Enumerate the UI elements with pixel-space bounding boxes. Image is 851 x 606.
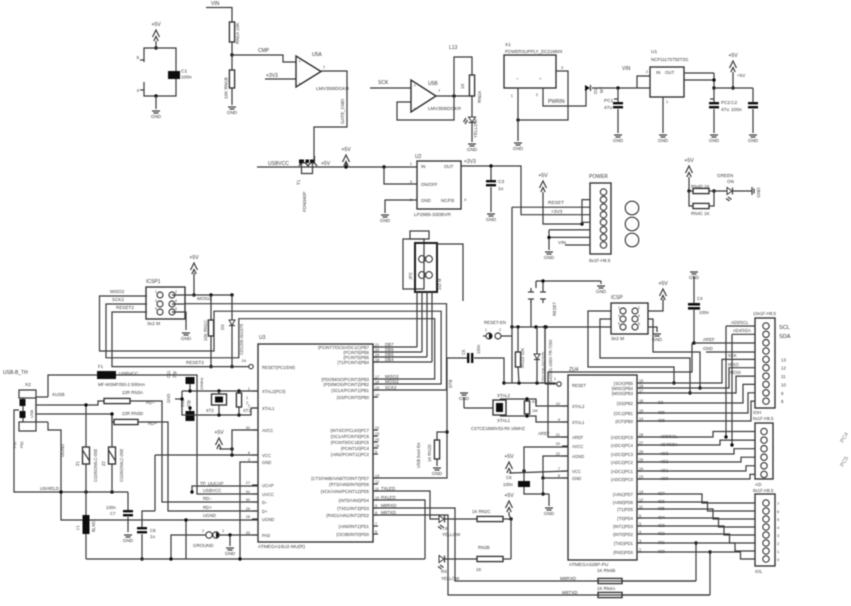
wire RESET line to ICSP xyxy=(512,326,611,328)
svg-text:XTAL2: XTAL2 xyxy=(497,393,511,398)
wire crystal gnd xyxy=(175,391,182,408)
junction d2 bottom xyxy=(535,381,538,384)
svg-text:SCL: SCL xyxy=(779,325,790,331)
svg-text:MISO: MISO xyxy=(728,362,739,367)
wire RD- net xyxy=(130,401,258,502)
svg-text:GND: GND xyxy=(123,538,134,543)
wire MOSI to IOH pin7 xyxy=(637,376,755,393)
svg-text:SDA: SDA xyxy=(779,334,791,340)
svg-text:(OC1)PB1: (OC1)PB1 xyxy=(614,411,634,416)
svg-text:GND: GND xyxy=(166,394,171,403)
wire M8RXD rail right xyxy=(622,580,696,582)
svg-text:22p: 22p xyxy=(186,399,191,407)
wire RN1A to junction xyxy=(231,42,233,55)
svg-text:GROUND: GROUND xyxy=(193,543,214,548)
svg-text:YELLOW: YELLOW xyxy=(473,118,478,138)
voltage regulator U1 NCP1117ST50T3G xyxy=(646,49,689,97)
label C9 22p xyxy=(166,370,177,378)
wire RX LED to RN2B xyxy=(445,558,478,560)
wire AREF to IOH pin3 xyxy=(694,342,755,344)
svg-text:(CTS/HWB/AIN6/TO/INT7)PD7: (CTS/HWB/AIN6/TO/INT7)PD7 xyxy=(311,476,370,481)
label RXLED xyxy=(381,495,396,500)
IC ZU4 ATMEGA328P-PU xyxy=(556,367,643,568)
label GREEN ON xyxy=(717,173,734,184)
wire +5V output rail xyxy=(714,87,753,89)
wire RESET row to ZU4 xyxy=(504,382,556,384)
LED TX yellow xyxy=(438,516,461,538)
svg-text:22: 22 xyxy=(375,426,379,430)
svg-text:(INT0)PD2: (INT0)PD2 xyxy=(613,532,634,537)
svg-text:19: 19 xyxy=(375,353,379,357)
svg-text:GND: GND xyxy=(227,110,238,115)
svg-text:UGND: UGND xyxy=(203,513,216,518)
svg-text:100n: 100n xyxy=(699,310,709,315)
label 1K RN2B xyxy=(476,567,481,572)
svg-text:1u: 1u xyxy=(498,186,504,192)
label XTAL1 net xyxy=(497,418,511,423)
svg-text:PC2: PC2 xyxy=(721,100,731,106)
svg-text:10K RN1B: 10K RN1B xyxy=(224,77,229,99)
wire PAD to jumper xyxy=(219,534,258,536)
svg-text:GND: GND xyxy=(513,146,524,151)
ground below RN2D xyxy=(432,468,443,476)
svg-text:M8TXD: M8TXD xyxy=(562,590,578,595)
junction m8rxd io1 xyxy=(694,541,697,544)
label IO8 at ZU4 xyxy=(658,418,665,423)
svg-text:VCC: VCC xyxy=(572,469,581,474)
capacitor C6 100n xyxy=(503,471,530,487)
svg-text:11: 11 xyxy=(781,374,786,379)
wire POWER pin7 gnd xyxy=(549,236,590,238)
label XTAL2 net xyxy=(497,393,511,398)
svg-text:(ADC1)PC1: (ADC1)PC1 xyxy=(611,469,634,474)
junction u3gnd rail xyxy=(238,557,241,560)
junction xt1 a xyxy=(188,406,191,409)
wire RESET to POWER pin3 xyxy=(512,206,590,208)
junction xt1 c xyxy=(237,413,240,416)
varistor Z2 CG0603MLC-05E xyxy=(101,412,124,492)
svg-text:AD4/SDA: AD4/SDA xyxy=(733,328,751,333)
svg-text:USBVCC: USBVCC xyxy=(268,161,289,167)
resonator Y2 CSTCE16M0V53 xyxy=(471,399,525,431)
svg-text:LMV358IDGKR: LMV358IDGKR xyxy=(428,106,462,112)
wire ICSP1 pin6 to GND xyxy=(172,312,186,330)
svg-text:5: 5 xyxy=(618,322,620,326)
label CD1206-S01575 at D3 xyxy=(239,323,244,355)
svg-text:27: 27 xyxy=(246,481,250,485)
svg-text:3: 3 xyxy=(155,299,157,303)
wire C6 gnd xyxy=(524,487,543,494)
label 1K RN2C xyxy=(472,509,491,514)
svg-text:4: 4 xyxy=(175,299,177,303)
capacitor C8 1u xyxy=(137,521,156,539)
label DTR xyxy=(448,379,453,388)
junction xtgnd a xyxy=(180,397,183,400)
label +3V3 at U2 output xyxy=(464,159,476,165)
svg-text:XT1: XT1 xyxy=(243,408,251,413)
wire ICSP pin3 loop SCK xyxy=(600,319,690,393)
label PWRIN xyxy=(548,99,565,105)
svg-text:10x1F-H8.5: 10x1F-H8.5 xyxy=(753,311,776,316)
capacitor C12 22p xyxy=(180,399,195,421)
svg-text:5: 5 xyxy=(375,450,377,454)
junction powergnd xyxy=(547,236,550,239)
wire POWER pin6 gnd xyxy=(549,229,590,231)
op-amp U5A xyxy=(296,52,350,92)
wire X1 pin1 to GND xyxy=(511,88,518,141)
svg-text:6: 6 xyxy=(375,530,377,534)
label RN2B xyxy=(478,545,490,550)
label M8TXD rail xyxy=(562,590,578,595)
svg-text:=: = xyxy=(539,76,542,81)
svg-text:GND: GND xyxy=(544,255,555,260)
svg-text:2: 2 xyxy=(246,401,248,405)
svg-text:IOL: IOL xyxy=(755,569,763,574)
svg-text:1K RN4B: 1K RN4B xyxy=(597,568,615,573)
label SS at ZU4 xyxy=(658,400,664,405)
svg-text:(AIN2/PCINT11)PC2: (AIN2/PCINT11)PC2 xyxy=(331,452,370,457)
node CMP junction xyxy=(230,53,233,56)
junction boot en xyxy=(445,430,448,433)
svg-text:3x2 M: 3x2 M xyxy=(611,336,624,342)
svg-text:+5V: +5V xyxy=(341,147,351,153)
svg-text:X2: X2 xyxy=(25,382,31,388)
wire C8 to bottom rail xyxy=(141,534,143,559)
labels IOH pin digits xyxy=(781,357,786,404)
svg-text:XT2: XT2 xyxy=(206,408,214,413)
svg-text:8x1F-H8.5: 8x1F-H8.5 xyxy=(589,258,611,263)
svg-text:VCC: VCC xyxy=(262,453,271,458)
svg-text:IN: IN xyxy=(656,70,660,75)
label SDA xyxy=(779,334,791,340)
connector AD 6x1F-H8.5 xyxy=(753,423,774,493)
resistor RN2D 1K xyxy=(427,432,447,466)
junction RN1C bottom xyxy=(209,365,212,368)
svg-text:1: 1 xyxy=(618,306,620,310)
svg-text:R2: R2 xyxy=(532,399,538,404)
label USB-B_TH xyxy=(3,370,28,376)
svg-text:+5V: +5V xyxy=(151,22,161,28)
ground below C1 xyxy=(151,111,162,119)
wire LED L to GND xyxy=(471,123,473,142)
wire DB4 to U3 xyxy=(373,361,432,363)
svg-text:2: 2 xyxy=(202,529,204,533)
label AD5/SCL at ZU4 xyxy=(660,434,678,439)
svg-text:NC/FB: NC/FB xyxy=(441,198,454,203)
power flag +5V at ICSP xyxy=(658,281,668,300)
svg-text:XTAL2(PC0): XTAL2(PC0) xyxy=(262,389,286,394)
svg-text:GATE_CMD: GATE_CMD xyxy=(340,98,345,124)
svg-text:XTAL1: XTAL1 xyxy=(497,418,511,423)
junction C8 rail xyxy=(140,557,143,560)
resistor RN4C 1K xyxy=(689,191,714,216)
wire +5V to ICSP1 pin2 xyxy=(193,273,195,295)
junction icsp miso xyxy=(672,381,675,384)
ground below ZU4 xyxy=(544,508,555,516)
resistor RN4A 1K xyxy=(597,586,622,598)
wire XTAL1 row xyxy=(182,408,258,415)
svg-text:+3V3: +3V3 xyxy=(266,73,278,79)
wire RN1B to GND xyxy=(231,88,233,105)
junction icsp mosi xyxy=(698,386,701,389)
junction +5V rail at U2 branch xyxy=(382,165,385,168)
junction RN1C top xyxy=(209,293,212,296)
svg-text:10: 10 xyxy=(781,382,786,387)
svg-text:D−: D− xyxy=(262,500,268,505)
svg-text:GND: GND xyxy=(658,138,669,143)
wire C8 top xyxy=(142,511,155,521)
svg-text:M8RXD: M8RXD xyxy=(560,576,577,581)
svg-text:18: 18 xyxy=(375,358,379,362)
svg-text:1u: 1u xyxy=(150,534,155,539)
op-amp U5B xyxy=(411,80,462,112)
svg-text:RESET(PC1/DW): RESET(PC1/DW) xyxy=(262,365,296,370)
power jack X1 xyxy=(504,42,563,88)
junction gnd climb xyxy=(541,492,544,495)
svg-text:6: 6 xyxy=(638,322,640,326)
wire ICSP1 5v net to RN1C/D3 xyxy=(194,294,232,296)
wire DB6 to U3 xyxy=(373,351,422,353)
ground below C7 xyxy=(123,535,134,543)
capacitor C4 100n xyxy=(688,279,709,315)
label SCK xyxy=(378,80,389,86)
wire DTR vertical xyxy=(373,358,467,478)
svg-text:USB boot En: USB boot En xyxy=(416,442,421,468)
svg-text:(ADC2)PC2: (ADC2)PC2 xyxy=(611,460,634,465)
svg-text:1K: 1K xyxy=(476,567,481,572)
wire vcc long xyxy=(155,454,258,456)
connector IOL 8x1F-H8.5 xyxy=(755,494,780,574)
ground below U2 xyxy=(380,215,391,223)
wire junction to RN1B xyxy=(231,55,233,70)
wire X1 pin3 xyxy=(518,65,568,120)
wire MISO2 loop xyxy=(100,296,442,384)
label RESET at POWER xyxy=(548,200,564,206)
svg-text:+5V: +5V xyxy=(658,281,668,287)
wire pullup down to RN2B xyxy=(510,519,512,554)
svg-text:L1: L1 xyxy=(75,525,80,530)
ground below RN1B xyxy=(227,107,238,115)
svg-text:5: 5 xyxy=(155,307,157,311)
wire vcc left vertical xyxy=(154,455,156,511)
label MISO2 at U3 xyxy=(385,374,399,379)
junction ICSP1 5v xyxy=(192,293,195,296)
svg-text:MF-MSMF050-2 500mA: MF-MSMF050-2 500mA xyxy=(98,382,145,387)
junction icsp sck xyxy=(688,391,691,394)
svg-text:C1: C1 xyxy=(181,69,187,75)
svg-text:(TXD)PD1: (TXD)PD1 xyxy=(614,541,634,546)
label IO7 at ZU4 xyxy=(658,491,665,496)
wire RD+ net xyxy=(138,422,258,511)
LED RX yellow xyxy=(438,556,460,582)
svg-text:+5V: +5V xyxy=(504,454,514,460)
wire ICSP pin2 to +5V xyxy=(648,299,663,311)
junction xt2 c xyxy=(237,389,240,392)
svg-text:(SCLK/PCINT1)PB1: (SCLK/PCINT1)PB1 xyxy=(331,388,369,393)
wire PC2 to GND xyxy=(713,109,715,133)
svg-text:TP_UUCAP: TP_UUCAP xyxy=(200,481,223,486)
wire M8TXD rail right xyxy=(622,594,710,596)
ground below LED L xyxy=(467,144,478,152)
power flag +5V at U1 xyxy=(728,53,738,72)
ground at reset button xyxy=(596,286,607,294)
transistor T1 FDN340P xyxy=(296,156,317,212)
svg-text:U2: U2 xyxy=(415,154,422,160)
ground at GROUND jumper xyxy=(225,548,236,556)
connector X2 USB-B xyxy=(19,382,48,431)
svg-text:U1: U1 xyxy=(651,49,657,55)
svg-text:RESET2: RESET2 xyxy=(116,305,134,310)
wire AD5/SCL to AD pin1 xyxy=(637,432,755,438)
wire +5V to C1 block xyxy=(155,41,157,48)
svg-text:JP2: JP2 xyxy=(408,272,413,280)
label RESET2 xyxy=(186,360,204,365)
wire LED ON to GND xyxy=(733,190,753,192)
label AREF at IOH xyxy=(703,337,715,342)
connector IOH 10x1F-H8.5 xyxy=(753,311,776,421)
ground right of ICSP xyxy=(652,334,663,342)
junction reset icsp drop xyxy=(543,325,546,328)
wire XTAL2 row xyxy=(182,390,258,392)
svg-text:2x2 M: 2x2 M xyxy=(437,278,442,290)
label 22R RN3D xyxy=(122,411,143,416)
svg-text:22p: 22p xyxy=(172,370,177,378)
wire UCAP xyxy=(192,486,258,492)
svg-text:P$2: P$2 xyxy=(20,441,24,448)
svg-text:6: 6 xyxy=(175,307,177,311)
label SCK2 xyxy=(112,297,124,302)
label M8RXD at U3 xyxy=(381,503,396,508)
svg-text:GND: GND xyxy=(703,346,713,351)
power flag +5V for C1 block xyxy=(151,22,161,41)
inductor L1 BLM21 xyxy=(75,492,96,534)
wire +3V3 to U5A inverting input xyxy=(265,78,296,80)
wire X1 pin2 PWRIN xyxy=(536,88,586,106)
svg-text:RESET-EN: RESET-EN xyxy=(484,320,506,325)
svg-text:USBVCC: USBVCC xyxy=(203,488,221,493)
svg-text:RN2A: RN2A xyxy=(477,90,482,103)
wire IO1 to IOL pin7 xyxy=(637,543,755,551)
svg-text:GND: GND xyxy=(613,138,624,143)
svg-text:UCAP: UCAP xyxy=(262,483,274,488)
wire RESET2 loop xyxy=(112,312,211,367)
svg-text:C5: C5 xyxy=(461,349,466,355)
svg-text:YELLOW: YELLOW xyxy=(441,576,460,581)
svg-text:12: 12 xyxy=(781,366,786,371)
label GND crystal xyxy=(166,394,171,403)
svg-text:16: 16 xyxy=(375,380,379,384)
junction c5 reset xyxy=(502,381,505,384)
wire +5V rail xyxy=(257,166,417,168)
diode D1 M7 xyxy=(585,85,604,94)
svg-text:16MHz: 16MHz xyxy=(199,377,204,390)
wire RN2B right xyxy=(503,554,511,559)
wire PC1 to GND xyxy=(617,109,619,133)
svg-text:Z2: Z2 xyxy=(101,460,106,466)
ground below C3 xyxy=(486,214,497,222)
wire reset drop to ZU4 row xyxy=(544,327,546,383)
label AD0 at ZU4 xyxy=(660,476,669,481)
label +3V3 at U5A xyxy=(266,73,278,79)
svg-text:+5V: +5V xyxy=(538,173,548,179)
junction VIN at PC1 xyxy=(616,86,619,89)
svg-text:7: 7 xyxy=(375,522,377,526)
fuse F1 MF-MSMF050-2 xyxy=(48,364,145,397)
mounting hole bottom xyxy=(625,233,639,247)
svg-text:CG0603MLC-05E: CG0603MLC-05E xyxy=(119,449,124,482)
capacitor C1 xyxy=(168,69,192,81)
resistor RN1B 10K xyxy=(224,70,235,99)
svg-text:D+: D+ xyxy=(262,509,268,514)
wire ICSP pin1 loop MISO xyxy=(588,311,674,383)
svg-text:M7: M7 xyxy=(599,86,604,93)
svg-text:(SS/PCINT0)PB0: (SS/PCINT0)PB0 xyxy=(337,395,370,400)
wire resonator gnd xyxy=(464,399,493,408)
wire C5 to reset junction xyxy=(474,358,504,383)
svg-text:RXLED: RXLED xyxy=(381,495,396,500)
svg-text:+3V3: +3V3 xyxy=(464,159,476,165)
wire gnd to symbol xyxy=(548,494,550,506)
svg-text:(INT4/CP/CLK0)PC7: (INT4/CP/CLK0)PC7 xyxy=(330,428,369,433)
svg-text:RN2B: RN2B xyxy=(478,545,490,550)
wire RESET from POWER vertical xyxy=(511,207,513,327)
svg-text:POWER: POWER xyxy=(589,174,608,180)
ground below ICSP1 xyxy=(181,333,192,341)
node VIN top-left xyxy=(211,1,220,7)
capacitor C5 100n xyxy=(461,344,481,363)
svg-text:24: 24 xyxy=(242,358,247,363)
svg-text:SCK2: SCK2 xyxy=(385,385,397,390)
svg-text:CSTCE16M0V53-R0 16MHZ: CSTCE16M0V53-R0 16MHZ xyxy=(471,426,525,431)
svg-text:OUT: OUT xyxy=(444,164,454,169)
svg-text:RN4C 1K: RN4C 1K xyxy=(691,211,710,216)
svg-text:(MOSI)PB3: (MOSI)PB3 xyxy=(612,391,634,396)
junction D3 bottom xyxy=(230,365,233,368)
svg-text:AD: AD xyxy=(755,482,762,487)
connector POWER 8x1F-H8.5 xyxy=(589,174,611,263)
junction pad gnd xyxy=(228,533,231,536)
diode D2 xyxy=(534,327,546,383)
capacitor PC1 47u xyxy=(604,88,623,111)
wire U3 gnd xyxy=(240,462,258,559)
wire GND to IOH pin4 xyxy=(706,351,755,353)
junction avcc xyxy=(230,447,233,450)
svg-text:ICSP: ICSP xyxy=(611,295,623,301)
svg-text:+5V: +5V xyxy=(684,158,694,164)
wire JP2 pin leads xyxy=(417,292,432,362)
wire SDA riser xyxy=(731,334,733,445)
svg-text:SCK2: SCK2 xyxy=(112,297,124,302)
mounting hole top xyxy=(625,201,639,215)
junction sda xyxy=(730,443,733,446)
junction btn a xyxy=(534,325,537,328)
svg-text:(OC1A/PCINT8)PC6: (OC1A/PCINT8)PC6 xyxy=(331,434,370,439)
wire bottom ground rail xyxy=(86,558,425,560)
power flag +5V at TX xyxy=(504,493,514,512)
label GND at IOH xyxy=(703,346,713,351)
junction ushield L1 xyxy=(59,490,62,493)
label SCL xyxy=(779,325,790,331)
wire U1 OUT pair xyxy=(684,73,714,88)
wire RESET vertical lower xyxy=(511,327,513,383)
wire X2 shield pin xyxy=(13,410,24,448)
svg-text:(OC0B/INT0)PD0: (OC0B/INT0)PD0 xyxy=(336,532,369,537)
svg-text:(AIN0/INT1)PD1: (AIN0/INT1)PD1 xyxy=(339,524,370,529)
junction rn1d top xyxy=(516,325,519,328)
wire resonator bottom xyxy=(500,415,527,417)
resistor RN3A 22R xyxy=(48,398,155,405)
svg-text:T1: T1 xyxy=(296,179,301,185)
